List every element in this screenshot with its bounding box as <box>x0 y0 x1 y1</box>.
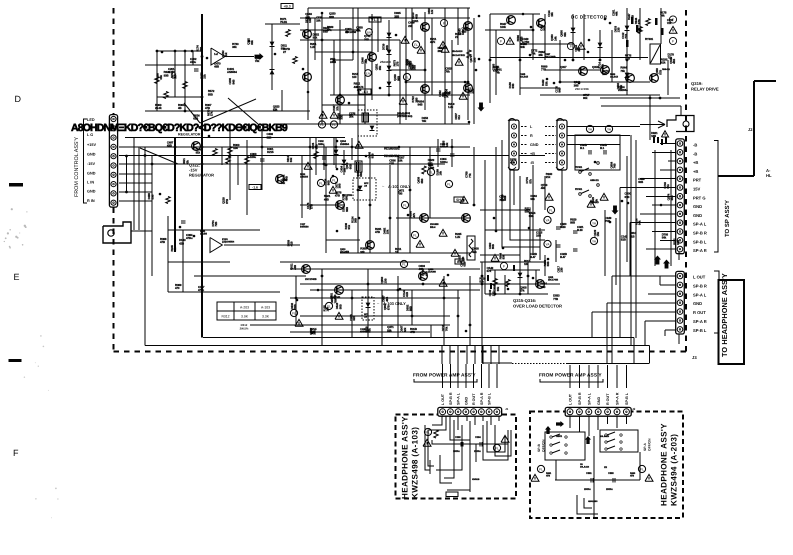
svg-text:16B: 16B <box>651 134 656 138</box>
svg-text:+B: +B <box>693 160 698 165</box>
svg-text:15k: 15k <box>596 232 600 237</box>
svg-text:RY301: RY301 <box>575 188 583 191</box>
svg-text:49B: 49B <box>285 176 289 181</box>
svg-text:-B: -B <box>693 143 697 148</box>
svg-text:2900u: 2900u <box>606 488 613 491</box>
svg-text:10k: 10k <box>602 72 607 76</box>
svg-text:SP-B L: SP-B L <box>693 328 707 333</box>
svg-text:92B: 92B <box>676 240 680 245</box>
svg-text:RBB-111: RBB-111 <box>662 68 671 71</box>
svg-text:C660: C660 <box>608 472 614 475</box>
svg-text:26k: 26k <box>349 115 354 119</box>
svg-text:33B: 33B <box>394 14 399 18</box>
svg-text:2SC2458: 2SC2458 <box>340 251 350 254</box>
svg-text:J2: J2 <box>632 407 636 411</box>
svg-text:27k: 27k <box>444 94 449 98</box>
svg-text:GND: GND <box>597 396 601 405</box>
svg-text:90B: 90B <box>638 180 643 184</box>
svg-text:2SC1740B: 2SC1740B <box>575 87 589 91</box>
svg-text:FL: FL <box>447 182 451 186</box>
svg-text:R: R <box>530 134 533 138</box>
svg-text:45B: 45B <box>672 59 676 64</box>
svg-text:61k: 61k <box>457 115 461 120</box>
svg-text:80B: 80B <box>511 84 515 89</box>
svg-text:KWZS498 (A-103): KWZS498 (A-103) <box>411 427 420 499</box>
svg-text:101.B15: 101.B15 <box>520 76 529 79</box>
svg-text:65B: 65B <box>670 196 674 201</box>
svg-text:72B: 72B <box>214 222 218 227</box>
svg-text:19k: 19k <box>173 73 177 78</box>
svg-text:80k: 80k <box>281 46 286 50</box>
svg-text:47B: 47B <box>546 475 550 478</box>
svg-text:RY301: RY301 <box>575 166 583 169</box>
svg-text:FL: FL <box>332 123 336 127</box>
svg-text:OFF/ON: OFF/ON <box>648 438 652 451</box>
svg-text:49k: 49k <box>541 186 546 190</box>
svg-text:70B: 70B <box>397 192 402 196</box>
svg-text:48B: 48B <box>214 65 219 69</box>
svg-text:28k: 28k <box>601 64 605 69</box>
svg-text:PRT: PRT <box>693 178 702 183</box>
svg-text:R OUT: R OUT <box>472 393 476 405</box>
svg-text:37k: 37k <box>520 289 525 293</box>
svg-text:42B: 42B <box>424 271 428 276</box>
svg-text:78B: 78B <box>293 304 297 309</box>
svg-text:18k: 18k <box>343 167 347 172</box>
svg-text:83k: 83k <box>250 40 254 45</box>
svg-text:66B: 66B <box>348 164 352 169</box>
svg-text:2B.11-37.B11: 2B.11-37.B11 <box>452 54 466 57</box>
svg-text:F: F <box>443 21 445 25</box>
svg-text:74B: 74B <box>364 59 368 64</box>
svg-text:10k: 10k <box>326 307 330 312</box>
svg-text:SP-A R: SP-A R <box>480 392 484 405</box>
svg-text:50k: 50k <box>496 286 500 291</box>
svg-text:84B: 84B <box>231 80 235 85</box>
svg-text:AN6564: AN6564 <box>227 70 237 74</box>
svg-text:+15V: +15V <box>87 143 96 147</box>
svg-text:2SA988: 2SA988 <box>428 271 437 274</box>
svg-text:50B: 50B <box>428 161 433 165</box>
svg-text:69B: 69B <box>344 196 348 201</box>
svg-text:R312: R312 <box>221 315 229 319</box>
svg-text:L OUT: L OUT <box>693 275 706 280</box>
svg-text:GND: GND <box>464 396 468 405</box>
svg-text:47B: 47B <box>335 194 340 198</box>
svg-text:4B: 4B <box>178 106 181 110</box>
svg-text:88B: 88B <box>409 306 413 311</box>
svg-text:GND: GND <box>693 213 702 218</box>
svg-text:SP-B R: SP-B R <box>693 231 707 236</box>
svg-text:2900u: 2900u <box>474 450 481 453</box>
svg-text:(1/2)AN6564: (1/2)AN6564 <box>222 241 235 244</box>
svg-text:HL: HL <box>766 173 772 178</box>
svg-text:2SL.B.113: 2SL.B.113 <box>600 435 610 438</box>
svg-text:100u: 100u <box>250 155 256 159</box>
svg-text:43k: 43k <box>356 28 361 32</box>
svg-text:B.47: B.47 <box>560 255 566 259</box>
svg-text:22k: 22k <box>408 24 413 28</box>
svg-text:47k: 47k <box>412 213 416 218</box>
svg-text:62B: 62B <box>463 262 467 267</box>
svg-text:28k: 28k <box>577 47 581 52</box>
svg-text:38B: 38B <box>364 37 369 41</box>
svg-text:92k: 92k <box>173 247 177 252</box>
svg-text:47B: 47B <box>375 230 380 234</box>
svg-text:RELAY DRIVE: RELAY DRIVE <box>691 87 719 92</box>
svg-text:GND: GND <box>530 143 539 147</box>
svg-text:1.2k: 1.2k <box>448 105 454 109</box>
svg-text:SP-A R: SP-A R <box>693 319 707 324</box>
svg-text:44k: 44k <box>615 11 619 16</box>
svg-text:R OUT: R OUT <box>693 310 706 315</box>
svg-text:77B: 77B <box>541 68 546 72</box>
svg-text:78B: 78B <box>199 47 203 52</box>
svg-text:72k: 72k <box>667 21 672 25</box>
svg-text:1000u: 1000u <box>440 160 448 164</box>
svg-text:43B: 43B <box>167 144 172 148</box>
svg-text:43B: 43B <box>293 265 297 270</box>
svg-text:L OUT: L OUT <box>569 393 573 405</box>
svg-text:41B: 41B <box>405 292 409 297</box>
svg-text:B.1: B.1 <box>580 146 585 150</box>
svg-text:TO HEADPHONE ASS'Y: TO HEADPHONE ASS'Y <box>720 273 729 357</box>
svg-text:59B: 59B <box>546 261 550 266</box>
svg-text:SP-B R: SP-B R <box>578 392 582 405</box>
svg-text:HEADPHONE ASS'Y: HEADPHONE ASS'Y <box>660 423 669 506</box>
svg-text:TO SP ASS'Y: TO SP ASS'Y <box>724 200 731 237</box>
svg-text:2SB5B4: 2SB5B4 <box>340 143 350 146</box>
svg-text:88B: 88B <box>385 45 389 50</box>
svg-text:82B: 82B <box>267 135 272 139</box>
svg-text:15k: 15k <box>386 229 390 234</box>
svg-text:42k: 42k <box>403 327 407 332</box>
svg-text:470: 470 <box>175 286 180 290</box>
svg-text:86B: 86B <box>359 172 363 177</box>
svg-text:41B: 41B <box>290 241 294 246</box>
svg-text:2SD400: 2SD400 <box>380 60 391 64</box>
svg-text:74k: 74k <box>660 14 665 18</box>
svg-text:J2: J2 <box>748 127 753 132</box>
svg-text:F: F <box>570 44 572 48</box>
svg-text:93k: 93k <box>368 328 372 333</box>
svg-text:SP-A L: SP-A L <box>587 392 591 405</box>
svg-text:100.B5: 100.B5 <box>200 233 208 236</box>
svg-text:37k: 37k <box>357 88 362 92</box>
svg-text:74B: 74B <box>613 164 617 169</box>
svg-text:81B: 81B <box>621 238 626 242</box>
svg-text:66B: 66B <box>420 179 424 184</box>
svg-text:91k: 91k <box>196 151 201 155</box>
svg-text:70k: 70k <box>594 199 598 204</box>
svg-text:54k: 54k <box>662 236 667 240</box>
svg-text:FL: FL <box>402 262 406 266</box>
svg-text:1.2k: 1.2k <box>455 235 461 239</box>
svg-text:1BBu: 1BBu <box>318 143 325 146</box>
svg-text:41k: 41k <box>224 52 228 57</box>
svg-text:12k: 12k <box>430 9 434 14</box>
svg-text:30B: 30B <box>340 115 344 120</box>
svg-text:13B: 13B <box>560 268 564 273</box>
svg-text:18k: 18k <box>445 142 449 147</box>
svg-text:20B: 20B <box>472 58 476 63</box>
svg-text:2SC1740B: 2SC1740B <box>545 56 556 59</box>
svg-text:66B: 66B <box>414 14 418 19</box>
svg-text:77k: 77k <box>468 173 472 178</box>
svg-text:-B: -B <box>693 151 697 156</box>
svg-text:+B: +B <box>530 152 535 156</box>
svg-text:A-203: A-203 <box>240 306 249 310</box>
svg-text:35k: 35k <box>378 65 382 70</box>
svg-text:Q317: Q317 <box>560 65 567 69</box>
svg-text:32B: 32B <box>352 316 356 321</box>
svg-text:FL: FL <box>413 233 417 237</box>
svg-text:4.7k: 4.7k <box>430 40 436 44</box>
svg-text:61B: 61B <box>625 195 630 199</box>
svg-text:-B: -B <box>530 161 534 165</box>
svg-text:91k: 91k <box>347 225 351 230</box>
svg-text:F: F <box>13 448 19 458</box>
svg-text:67B: 67B <box>386 305 390 310</box>
svg-text:R OUT: R OUT <box>606 393 610 405</box>
svg-text:57B: 57B <box>309 204 313 209</box>
svg-text:ABA1BB3: ABA1BB3 <box>588 500 598 503</box>
svg-text:FL: FL <box>640 467 644 471</box>
svg-text:27k: 27k <box>210 111 214 116</box>
svg-text:KWB1B: KWB1B <box>472 478 480 481</box>
svg-text:F: F <box>672 39 674 43</box>
svg-text:PRT G: PRT G <box>693 195 706 200</box>
svg-text:19k: 19k <box>398 159 403 163</box>
svg-text:77B: 77B <box>553 297 558 301</box>
svg-text:RY301: RY301 <box>645 37 654 41</box>
svg-text:36B: 36B <box>574 83 579 87</box>
svg-text:40k: 40k <box>510 161 515 165</box>
svg-text:SP-B: SP-B <box>537 444 541 452</box>
svg-text:101.B13: 101.B13 <box>610 76 619 79</box>
svg-text:B.1: B.1 <box>600 146 605 150</box>
svg-text:98B: 98B <box>329 15 334 19</box>
svg-text:25.0k: 25.0k <box>155 106 162 110</box>
svg-text:470p: 470p <box>198 288 204 292</box>
svg-text:75.B1: 75.B1 <box>280 20 288 24</box>
svg-text:57k: 57k <box>487 269 492 273</box>
svg-text:98B: 98B <box>396 76 400 81</box>
svg-text:75k: 75k <box>620 69 625 73</box>
svg-text:SP-A: SP-A <box>643 443 647 451</box>
svg-text:REGULATOR: REGULATOR <box>178 133 201 137</box>
svg-text:B.33: B.33 <box>560 225 566 229</box>
svg-text:21k: 21k <box>203 74 207 79</box>
svg-text:HZ15: HZ15 <box>267 150 274 154</box>
svg-text:B4/50B8: B4/50B8 <box>300 226 309 229</box>
svg-text:78k: 78k <box>422 119 427 123</box>
svg-text:RD16BSB2: RD16BSB2 <box>384 147 400 151</box>
svg-text:59k: 59k <box>525 210 530 214</box>
svg-text:42B: 42B <box>461 30 466 34</box>
svg-text:OFF/ON: OFF/ON <box>542 439 546 452</box>
svg-text:20B: 20B <box>471 89 475 94</box>
svg-text:93B: 93B <box>371 153 375 158</box>
svg-text:3.3K: 3.3K <box>262 315 270 319</box>
svg-text:90k: 90k <box>501 255 505 260</box>
svg-text:91k: 91k <box>313 36 318 40</box>
svg-text:1B: 1B <box>524 262 527 266</box>
svg-text:63B: 63B <box>529 214 534 218</box>
svg-text:EN: EN <box>366 71 370 75</box>
svg-text:63B: 63B <box>389 162 394 166</box>
svg-text:48B: 48B <box>324 197 329 201</box>
svg-text:SP-A R: SP-A R <box>616 392 620 405</box>
svg-text:SP-B L: SP-B L <box>488 392 492 405</box>
svg-text:55B: 55B <box>208 92 213 96</box>
svg-text:KWZS494 (A-203): KWZS494 (A-203) <box>670 434 679 506</box>
svg-text:93k: 93k <box>563 32 567 37</box>
svg-text:FL: FL <box>539 467 543 471</box>
svg-text:E: E <box>14 272 20 282</box>
svg-text:ABB-111: ABB-111 <box>590 179 599 182</box>
svg-text:17B: 17B <box>396 62 400 67</box>
svg-text:Q315-Q316:: Q315-Q316: <box>513 298 536 303</box>
svg-text:16B: 16B <box>536 234 541 238</box>
svg-text:35k: 35k <box>538 53 543 57</box>
svg-text:47B: 47B <box>630 475 634 478</box>
svg-text:13B: 13B <box>617 27 621 32</box>
svg-text:39B: 39B <box>413 65 417 70</box>
svg-text:76k: 76k <box>333 298 337 303</box>
svg-text:Q315: Q315 <box>548 276 554 279</box>
svg-text:45B: 45B <box>519 37 523 42</box>
svg-text:76k: 76k <box>445 70 450 74</box>
svg-text:SP-A L: SP-A L <box>457 392 461 405</box>
svg-text:16k: 16k <box>439 171 443 176</box>
svg-text:FROM CONTROL ASS'Y: FROM CONTROL ASS'Y <box>74 136 80 197</box>
svg-text:100: 100 <box>352 75 357 79</box>
svg-text:19k: 19k <box>550 12 554 17</box>
svg-text:C064: C064 <box>475 436 481 439</box>
svg-text:FROM POWER AMP ASS'Y: FROM POWER AMP ASS'Y <box>539 373 602 379</box>
svg-text:90k: 90k <box>521 45 526 49</box>
svg-text:42k: 42k <box>472 250 477 254</box>
svg-text:66B: 66B <box>503 196 507 201</box>
svg-text:47Bu: 47Bu <box>186 236 193 240</box>
svg-text:FL: FL <box>405 75 409 79</box>
svg-text:SP-A R: SP-A R <box>693 248 707 253</box>
svg-text:A-103: A-103 <box>261 306 270 310</box>
svg-text:SP-B L: SP-B L <box>625 392 629 405</box>
svg-text:3.9K: 3.9K <box>241 315 249 319</box>
svg-text:2W.5%: 2W.5% <box>240 326 249 330</box>
svg-text:53k: 53k <box>544 81 548 86</box>
svg-text:SH: SH <box>456 198 461 202</box>
svg-text:DC DETECTOR: DC DETECTOR <box>571 15 608 20</box>
svg-text:84B: 84B <box>558 88 562 93</box>
svg-text:98k: 98k <box>360 250 365 254</box>
svg-text:58B: 58B <box>345 207 349 212</box>
svg-text:GND: GND <box>693 204 702 209</box>
svg-text:GND: GND <box>87 153 96 157</box>
svg-text:GND: GND <box>87 190 96 194</box>
svg-text:77B: 77B <box>625 56 630 60</box>
svg-text:65k: 65k <box>159 75 163 80</box>
svg-text:90k: 90k <box>530 197 535 201</box>
svg-text:39B: 39B <box>354 218 358 223</box>
svg-text:51k: 51k <box>619 84 623 89</box>
svg-text:1.7BB: 1.7BB <box>428 167 434 170</box>
svg-text:56B: 56B <box>338 304 342 309</box>
svg-text:FL: FL <box>403 203 407 207</box>
svg-text:C661: C661 <box>586 472 592 475</box>
svg-text:2SC1740B: 2SC1740B <box>305 278 317 281</box>
svg-text:-15V: -15V <box>87 162 95 166</box>
svg-text:81B: 81B <box>314 144 318 149</box>
svg-text:47B: 47B <box>205 106 210 110</box>
svg-text:HEADPHONE ASS'Y: HEADPHONE ASS'Y <box>401 416 410 499</box>
svg-text:GND: GND <box>693 301 702 306</box>
svg-text:FL: FL <box>292 311 296 315</box>
svg-text:C060: C060 <box>455 436 461 439</box>
svg-text:F: F <box>500 39 502 43</box>
svg-text:L IN: L IN <box>87 181 94 185</box>
svg-text:52k: 52k <box>479 280 484 284</box>
svg-text:90B: 90B <box>164 73 169 77</box>
svg-text:B.47: B.47 <box>530 255 536 259</box>
svg-text:44k: 44k <box>495 65 499 70</box>
svg-text:47B: 47B <box>160 240 165 244</box>
svg-text:100k: 100k <box>500 25 506 29</box>
svg-text:15V: 15V <box>693 187 701 192</box>
svg-text:SP-B R: SP-B R <box>449 392 453 405</box>
svg-text:90k: 90k <box>583 96 588 100</box>
svg-text:-1.6: -1.6 <box>252 185 258 189</box>
svg-text:51k: 51k <box>666 184 670 189</box>
svg-text:58k: 58k <box>387 328 392 332</box>
svg-text:97B: 97B <box>225 199 229 204</box>
svg-text:89B: 89B <box>570 221 575 225</box>
svg-text:63B: 63B <box>193 117 198 121</box>
svg-text:L OUT: L OUT <box>441 393 445 405</box>
svg-text:15B2B3: 15B2B3 <box>300 176 309 179</box>
svg-text:FL: FL <box>414 43 418 47</box>
svg-text:57B: 57B <box>658 70 662 75</box>
svg-text:38B: 38B <box>414 98 418 103</box>
svg-text:21k: 21k <box>546 175 551 179</box>
svg-text:FL: FL <box>549 208 553 212</box>
svg-text:39B: 39B <box>338 184 342 189</box>
svg-text:B.33: B.33 <box>577 228 583 232</box>
svg-text:SP-B L: SP-B L <box>693 239 707 244</box>
svg-text:SP-A L: SP-A L <box>693 292 707 297</box>
svg-text:48B: 48B <box>385 297 389 302</box>
svg-text:42B: 42B <box>179 241 184 245</box>
svg-text:1-2: 1-2 <box>214 52 218 56</box>
svg-text:54k: 54k <box>638 220 642 225</box>
svg-text:17k: 17k <box>327 28 332 32</box>
svg-text:13B: 13B <box>308 18 312 23</box>
svg-text:73k: 73k <box>531 52 536 56</box>
svg-text:71B: 71B <box>624 34 628 39</box>
svg-text:F: F <box>503 264 505 268</box>
svg-text:D: D <box>15 94 22 104</box>
svg-text:62k: 62k <box>661 61 666 65</box>
svg-text:93k: 93k <box>185 160 189 165</box>
svg-text:FL: FL <box>332 178 336 182</box>
svg-text:37k: 37k <box>335 106 339 111</box>
svg-text:SP-A L: SP-A L <box>693 222 707 227</box>
svg-text:63k: 63k <box>273 108 278 112</box>
svg-text:OVER LOAD DETECTOR: OVER LOAD DETECTOR <box>513 304 562 309</box>
svg-text:2SC1740B: 2SC1740B <box>548 279 559 282</box>
